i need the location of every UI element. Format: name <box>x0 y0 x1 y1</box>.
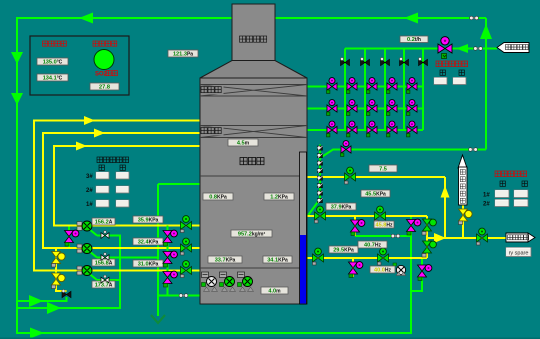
absorber feed pipe <box>97 184 200 316</box>
flow 40.7Hz <box>358 241 387 249</box>
spray drain valve 3 (magenta) <box>163 271 177 287</box>
spray drain valve 2 (magenta) <box>163 251 177 267</box>
pressure 45.5KPa <box>361 190 390 198</box>
flush branch pipe 5 <box>422 49 424 131</box>
pump 3# stop button <box>116 172 129 179</box>
spray 2 arrow <box>94 129 105 138</box>
flow indicator on riser branch <box>469 148 478 152</box>
flush row pipe 1 <box>307 86 423 88</box>
check valve drain <box>62 289 71 297</box>
pump 1# stop button <box>116 200 129 207</box>
crossover valve magenta left <box>65 230 79 246</box>
svg-text:134.1°C: 134.1°C <box>43 76 63 82</box>
flow 40.0 (yellow) <box>370 266 395 274</box>
pressure readout 0.8KPa <box>203 193 233 201</box>
svg-text:40.0Hz: 40.0Hz <box>374 268 392 274</box>
svg-text:37.9KPa: 37.9KPa <box>331 205 352 211</box>
svg-text:4.5m: 4.5m <box>237 141 250 147</box>
flush valve row1 col1 <box>327 78 338 94</box>
drain valve row B (magenta) <box>351 220 365 236</box>
gypsum branch pipe <box>411 258 422 291</box>
bottom pipe right arrow <box>30 328 44 339</box>
gypsum pump (spare) <box>393 263 406 276</box>
spray 3 arrow <box>76 142 87 151</box>
demister level readout 4.5m <box>228 139 258 147</box>
flush valve row2 col5 <box>407 100 418 116</box>
start/stop header 启 停 <box>99 165 104 170</box>
spray isolation valve 3 <box>181 261 192 278</box>
flow indicator on flush header <box>474 47 483 51</box>
flush row pipe 3 <box>307 129 423 131</box>
left pipe down arrow 2 <box>11 93 23 105</box>
stack label 烟气出口 <box>240 36 246 42</box>
svg-text:173.7A: 173.7A <box>95 283 113 289</box>
group title 循环泵顺控 <box>97 157 103 163</box>
svg-text:29.5KPa: 29.5KPa <box>333 248 354 254</box>
demister flush header <box>345 48 497 50</box>
svg-text:ry spare: ry spare <box>509 251 529 257</box>
spray nozzle 2 <box>318 154 323 158</box>
svg-text:40.7Hz: 40.7Hz <box>364 243 382 249</box>
manual valve 5 <box>418 57 427 65</box>
pressure 29.5KPa <box>329 246 358 254</box>
bleed valve B1 (green) <box>315 206 326 223</box>
flush valve row1 col4 <box>387 78 398 94</box>
svg-text:32.4KPa: 32.4KPa <box>138 240 159 246</box>
discharge 2# start button <box>495 200 509 207</box>
svg-text:0.8KPa: 0.8KPa <box>209 195 227 201</box>
ammeter 156.8A <box>92 259 115 267</box>
pressure 32.4KPa <box>133 238 163 246</box>
discharge 1# start button <box>495 190 509 198</box>
manual valve 2 <box>360 57 369 65</box>
flush branch pipe 4 <box>403 49 405 131</box>
crossover stub pipe (left) <box>68 226 70 249</box>
bleed row pipe A <box>307 177 445 238</box>
drain stub row B <box>354 216 356 236</box>
bottom window edge <box>0 338 540 339</box>
svg-text:1#: 1# <box>86 202 93 208</box>
group title 浆液排出泵 (red) <box>495 171 501 177</box>
flush branch pipe 1 <box>344 49 346 131</box>
gypsum branch valve (magenta) <box>418 265 432 281</box>
drain valve row C (magenta) <box>349 262 363 278</box>
circulation pump 1 <box>77 221 92 231</box>
demister section 1 <box>200 85 307 97</box>
main riser valve (magenta) <box>407 219 421 235</box>
flush valve row3 col3 <box>367 121 378 137</box>
slurry level readout 4.0m <box>261 287 288 295</box>
pressure 31.0KPa <box>133 260 163 268</box>
tower sump line <box>200 267 307 269</box>
svg-text:0.2t/h: 0.2t/h <box>407 37 421 43</box>
flush header main valve <box>438 37 452 59</box>
spray nozzle 5 <box>318 176 323 180</box>
tower label 吸收塔 <box>240 158 247 165</box>
svg-text:45.8Hz: 45.8Hz <box>375 223 393 229</box>
svg-text:1.2KPa: 1.2KPa <box>270 195 288 201</box>
spray isolation valve 1 <box>181 216 192 233</box>
riser up arrow <box>480 24 492 39</box>
pressure readout 34.1KPa <box>263 256 292 264</box>
svg-text:27.8: 27.8 <box>99 85 110 91</box>
top pipe flow arrow (left) <box>79 13 93 24</box>
flush header left arrow <box>456 44 468 53</box>
density readout 957.2kg/m3 <box>231 230 272 238</box>
flush valve row2 col2 <box>347 100 358 116</box>
spray circuit pipe 3 <box>54 146 200 226</box>
label 风机运行 (red) <box>93 41 98 46</box>
spray nozzle 3 <box>318 161 323 165</box>
ammeter 173.7A <box>92 281 115 289</box>
tag 至置换泵 (to transfer pump) <box>506 233 535 242</box>
pump discharge diagonals <box>89 229 97 280</box>
flow indicator gypsum cross <box>391 234 400 238</box>
dewatering isolation valve (yellow) <box>459 209 473 225</box>
dewatering drop pipe <box>462 205 464 238</box>
gypsum cross pipe <box>355 235 411 237</box>
spray nozzle 8 <box>318 199 323 203</box>
flush valve row2 col4 <box>387 100 398 116</box>
pump 2# start button <box>96 186 109 193</box>
svg-text:33.7KPa: 33.7KPa <box>215 258 236 264</box>
bleed valve B2 (green) <box>375 206 386 223</box>
spare pump button ry spare <box>506 248 531 257</box>
pressure 35.9KPa <box>133 216 163 224</box>
check valve pump3 <box>101 275 109 283</box>
svg-text:957.2kg/m³: 957.2kg/m³ <box>238 232 266 238</box>
spray circuit pipe 2 <box>43 133 200 248</box>
flush valve row3 col4 <box>387 121 398 137</box>
spray drain valve 1 (magenta) <box>163 230 177 246</box>
pump suction arrow B <box>47 302 61 314</box>
monitor panel frame <box>30 36 129 95</box>
svg-text:7.5: 7.5 <box>379 167 387 173</box>
spray nozzle 6 <box>318 184 323 188</box>
spray drain stub pipe <box>167 226 169 296</box>
flush valve row3 col5 <box>407 121 418 137</box>
circulation pump 3 <box>77 266 92 276</box>
bleed valve C2 (green) <box>378 248 389 265</box>
demister label 除雾器 (lower) <box>201 127 224 136</box>
discharge start/stop labels <box>500 181 505 186</box>
flush stop button <box>453 78 466 85</box>
level gauge fill (blue) <box>300 235 306 304</box>
manual valve 1 <box>340 57 349 65</box>
suction arrow A <box>29 295 43 307</box>
flow 0.2t/h <box>400 36 428 43</box>
svg-text:156.2A: 156.2A <box>95 220 113 226</box>
process water riser <box>308 18 487 216</box>
spray isolation valve 2 <box>181 238 192 255</box>
flush valve row2 col3 <box>367 100 378 116</box>
SO2 readout 27.8 <box>90 83 119 91</box>
flush valve row1 col3 <box>367 78 378 94</box>
spray 1 arrow <box>84 116 95 125</box>
circulation pump 2 <box>77 244 92 254</box>
flush start button <box>434 78 447 85</box>
pump 3# start button <box>96 172 109 179</box>
spray nozzle 4 <box>318 169 323 173</box>
check valve pump1 <box>101 231 109 239</box>
check valve pump2 <box>101 253 109 261</box>
bleed valve A (green) <box>345 167 356 184</box>
gypsum outlet valve (green) <box>477 228 488 245</box>
svg-text:45.5KPa: 45.5KPa <box>365 192 386 198</box>
bleed valve C1 (green) <box>313 248 324 265</box>
svg-text:31.0KPa: 31.0KPa <box>138 262 159 268</box>
flush branch pipe 2 <box>364 49 366 131</box>
tag 去石膏脱水 (vertical, to dewatering) <box>458 155 467 168</box>
svg-text:1#: 1# <box>483 193 490 199</box>
svg-text:4.0m: 4.0m <box>268 289 281 295</box>
gypsum outlet pipe <box>427 237 506 239</box>
crossover valve yellow B <box>52 273 66 289</box>
bleed row pipe B <box>307 216 427 258</box>
flush valve row1 col2 <box>347 78 358 94</box>
discharge 2# stop button <box>514 200 528 207</box>
flush branch pipe 3 <box>384 49 386 131</box>
flush start/stop labels <box>440 70 445 75</box>
pressure readout 1.2KPa <box>264 193 294 201</box>
agitator M1 <box>202 272 218 292</box>
svg-text:34.1KPa: 34.1KPa <box>267 258 288 264</box>
top pipe flow arrow (right) <box>404 13 418 24</box>
flow indicator on top pipe <box>470 16 479 20</box>
ammeter 156.2A <box>92 218 115 226</box>
pressure readout 33.7KPa <box>208 256 242 264</box>
left pipe down arrow 1 <box>11 52 23 64</box>
svg-text:135.0°C: 135.0°C <box>43 60 63 66</box>
temperature 135.0C <box>37 58 68 66</box>
tag 回工艺水 (to process water) <box>497 43 529 53</box>
fan running lamp <box>94 50 114 70</box>
flush valve row1 col5 <box>407 78 418 94</box>
group title 除雾器冲洗 (red) <box>436 61 442 67</box>
flush valve row3 col2 <box>347 121 358 137</box>
svg-text:35.9KPa: 35.9KPa <box>138 218 159 224</box>
pump1 suction pipe <box>17 236 120 309</box>
agitator M3 <box>238 272 254 292</box>
pressure 37.9KPa <box>326 203 356 211</box>
gypsum outlet arrow <box>434 233 446 243</box>
absorber tower outlet stack <box>232 4 275 61</box>
drain stub row C <box>352 258 354 277</box>
svg-text:156.8A: 156.8A <box>95 261 113 267</box>
crossover valve yellow A <box>52 252 66 268</box>
flush row pipe 2 <box>307 108 423 110</box>
flow 45.8 (yellow) <box>374 221 394 229</box>
spray nozzle 1 <box>318 146 323 150</box>
absorber tower body <box>200 78 307 304</box>
svg-text:2#: 2# <box>483 202 490 208</box>
demister label 除雾器 (upper) <box>201 86 224 95</box>
suction line A <box>17 297 67 301</box>
svg-text:121.3Pa: 121.3Pa <box>173 52 193 58</box>
manual valve 4 <box>399 57 408 65</box>
label 烟气温度 (red) <box>43 41 48 46</box>
tower section line (spray zone top) <box>200 175 307 177</box>
pump 2# stop button <box>116 186 129 193</box>
svg-text:2#: 2# <box>86 188 93 194</box>
pump 1# start button <box>96 200 109 207</box>
spray nozzle 7 <box>318 191 323 195</box>
discharge 1# stop button <box>514 190 528 198</box>
pump3 suction pipe <box>97 279 120 281</box>
demister section 2 <box>200 126 307 138</box>
flush valve row2 col1 <box>327 100 338 116</box>
manual valve 3 <box>380 57 389 65</box>
pressure 121.3Pa <box>168 50 198 58</box>
flush valve row3 col1 <box>327 121 338 137</box>
bleed A up arrow <box>441 186 450 198</box>
transfer valve lower (green vertical) <box>422 241 436 257</box>
level 7.5 <box>369 165 397 173</box>
crossover stub yellow <box>56 248 67 291</box>
feed pipe flow indicator <box>179 294 188 298</box>
temperature 134.1C <box>37 74 68 82</box>
tower transition hood <box>200 61 307 79</box>
agitator M2 <box>220 272 236 292</box>
spray circuit pipe 1 <box>34 121 200 271</box>
drain chevron <box>151 315 165 323</box>
level gauge tube <box>300 152 307 304</box>
riser branch valve <box>341 141 352 157</box>
transfer valve upper (green vertical) <box>422 219 436 235</box>
svg-text:3#: 3# <box>86 174 93 180</box>
